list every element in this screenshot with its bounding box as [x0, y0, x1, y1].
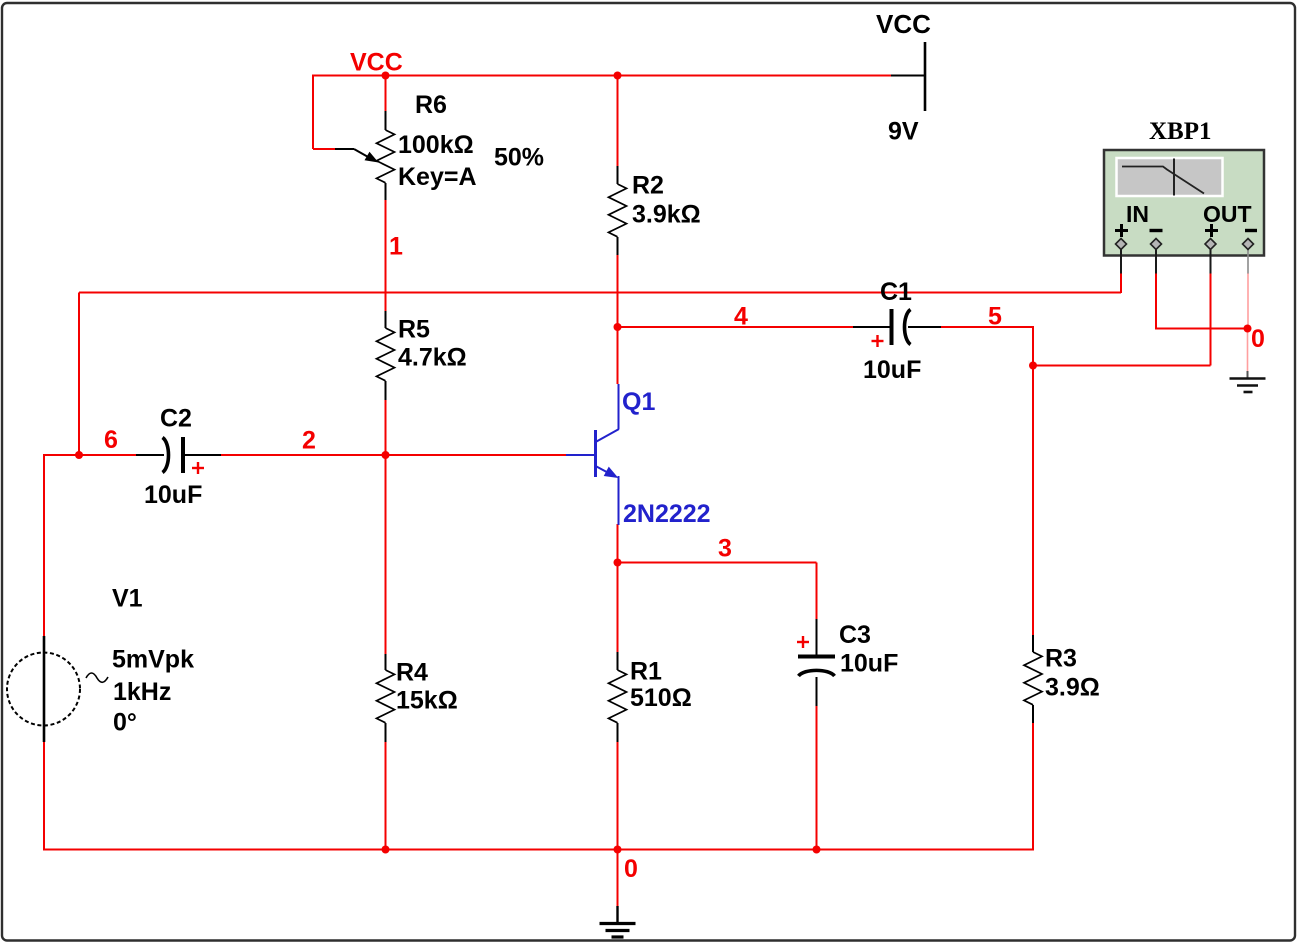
wire pot left stub horizontal: [313, 148, 335, 150]
svg-text:IN: IN: [1126, 201, 1149, 227]
svg-text:3.9kΩ: 3.9kΩ: [632, 201, 701, 229]
svg-text:XBP1: XBP1: [1149, 118, 1212, 145]
wire VCC to R2: [617, 76, 619, 168]
wire C3 bottom to rail: [816, 706, 818, 850]
junction rail-R1: [614, 846, 622, 854]
svg-text:OUT: OUT: [1203, 201, 1252, 227]
wire node3 down to C3: [816, 563, 818, 620]
resistor R4: [377, 654, 395, 742]
junction rail-C3: [813, 846, 821, 854]
svg-text:6: 6: [104, 426, 118, 454]
svg-text:0: 0: [624, 855, 638, 883]
capacitor C1: [853, 309, 941, 345]
wire pot left stub vertical: [312, 75, 314, 150]
svg-text:R4: R4: [396, 659, 428, 687]
svg-text:10uF: 10uF: [840, 650, 898, 678]
svg-text:C2: C2: [160, 405, 192, 433]
wire R2 to node4 to collector: [617, 254, 619, 384]
XBP1 terminal IN+: [1115, 224, 1128, 274]
transistor Q1: [566, 384, 619, 525]
wire R1 bottom to rail: [617, 741, 619, 850]
svg-text:510Ω: 510Ω: [630, 684, 692, 712]
Q1 emitter arrowhead: [605, 468, 617, 477]
wire V1 bottom vertical: [43, 742, 45, 851]
svg-text:Q1: Q1: [622, 388, 655, 416]
plus mark C1: [872, 335, 884, 347]
resistor R2: [609, 166, 627, 255]
XBP1 terminal OUT+: [1205, 224, 1218, 274]
wire R3 bottom to rail: [1032, 722, 1034, 851]
svg-text:VCC: VCC: [350, 49, 403, 77]
XBP1 terminal IN-: [1150, 231, 1163, 274]
capacitor C2: [136, 437, 221, 473]
svg-text:C3: C3: [839, 621, 871, 649]
wire ground rail bottom: [44, 849, 1033, 851]
wire R4 bottom to rail: [385, 741, 387, 850]
svg-text:5mVpk: 5mVpk: [112, 646, 194, 674]
svg-text:1kHz: 1kHz: [113, 678, 171, 706]
resistor R3: [1024, 635, 1042, 723]
wire node4 horizontal to C1: [618, 326, 854, 328]
resistor R5: [377, 311, 395, 400]
wire net2 R5 to R4: [385, 399, 387, 655]
wire node3 horizontal: [618, 562, 817, 564]
svg-text:2N2222: 2N2222: [623, 500, 711, 528]
plus mark C2: [192, 462, 204, 474]
svg-text:V1: V1: [112, 585, 143, 613]
svg-text:4: 4: [734, 303, 748, 331]
junction node3: [614, 559, 622, 567]
svg-text:3.9Ω: 3.9Ω: [1045, 674, 1100, 702]
wire V1 top vertical: [43, 454, 45, 636]
wire XBP IN- drop: [1155, 273, 1157, 330]
wire net6 long horizontal: [79, 292, 1121, 294]
junction node0-XBP: [1244, 325, 1252, 333]
svg-text:3: 3: [718, 535, 732, 563]
svg-text:10uF: 10uF: [144, 481, 202, 509]
junction rail-R4: [382, 846, 390, 854]
plus mark C3: [797, 636, 809, 648]
wire net1 R6 to R5: [385, 200, 387, 311]
wire node3 to R1: [617, 563, 619, 654]
svg-text:R5: R5: [398, 316, 430, 344]
wire VCC rail top: [313, 75, 891, 77]
svg-text:9V: 9V: [888, 118, 919, 146]
wire node0 to XBP ground pale: [1247, 329, 1249, 372]
junction node6: [75, 451, 83, 459]
svg-text:50%: 50%: [494, 144, 544, 172]
resistor R1: [609, 652, 627, 742]
svg-text:1: 1: [389, 233, 403, 261]
junction VCC-R2: [614, 72, 622, 80]
svg-text:0°: 0°: [113, 709, 137, 737]
wire R6 top lead red: [385, 76, 387, 113]
bode plotter XBP1: [1104, 150, 1264, 256]
svg-text:5: 5: [988, 303, 1002, 331]
junction node4: [614, 323, 622, 331]
wire net5 vertical to R3: [1032, 326, 1034, 636]
svg-text:15kΩ: 15kΩ: [396, 687, 458, 715]
svg-text:C1: C1: [880, 278, 912, 306]
svg-text:R2: R2: [632, 172, 664, 200]
XBP1 terminal OUT-: [1243, 231, 1258, 274]
VCC power symbol: [891, 42, 925, 111]
wire XBP OUT+ drop: [1210, 273, 1212, 366]
wire node6 horizontal to C2: [44, 454, 136, 456]
svg-text:VCC: VCC: [876, 9, 931, 39]
capacitor C3: [798, 619, 835, 706]
junction VCC-R6: [382, 72, 390, 80]
svg-text:R3: R3: [1045, 645, 1077, 673]
wire OUT+ horizontal to node5: [1033, 365, 1211, 367]
junction node5-OUT+: [1029, 362, 1037, 370]
svg-text:100kΩ: 100kΩ: [398, 131, 474, 159]
wire ground stem red center: [617, 850, 619, 907]
wire XBP IN- horizontal to node0: [1156, 328, 1248, 330]
svg-text:Key=A: Key=A: [398, 163, 477, 191]
wire XBP OUT- drop pale: [1247, 273, 1249, 329]
potentiometer R6: [335, 111, 395, 200]
wire emitter to node3: [617, 524, 619, 563]
ground center: [600, 906, 636, 937]
svg-text:R1: R1: [630, 658, 662, 686]
svg-text:0: 0: [1251, 325, 1265, 353]
ground XBP: [1230, 371, 1266, 392]
wire node2 C2 to base: [221, 454, 566, 456]
wire C1 to node5 corner: [941, 326, 1033, 328]
R6 wiper arrowhead: [365, 152, 379, 163]
svg-text:R6: R6: [415, 91, 447, 119]
svg-text:10uF: 10uF: [863, 356, 921, 384]
junction node2: [382, 451, 390, 459]
wire XBP IN+ drop: [1120, 273, 1122, 293]
wire net6 left vertical: [78, 293, 80, 456]
svg-text:2: 2: [302, 427, 316, 455]
source V1: [7, 636, 108, 742]
svg-text:4.7kΩ: 4.7kΩ: [398, 344, 467, 372]
